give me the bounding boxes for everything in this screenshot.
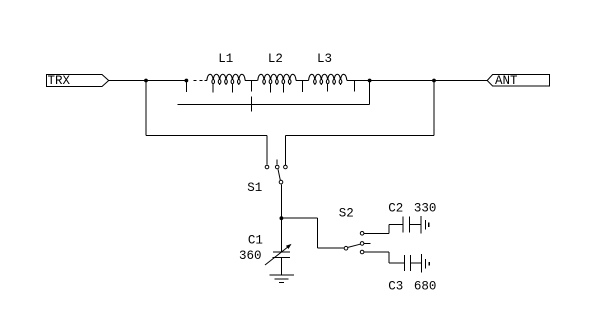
tap stub at L2-L3 junction [302, 81, 304, 93]
wire S1 pole down [280, 184, 282, 218]
wire node B to node C [370, 80, 434, 82]
wire node A down [145, 81, 147, 136]
L1 tap wires [213, 84, 232, 93]
node B junction dot [368, 79, 372, 83]
tap stub at L1-L2 junction [251, 81, 253, 92]
svg-text:C1: C1 [248, 233, 263, 247]
svg-text:680: 680 [414, 280, 437, 294]
wire L1 to L2 [245, 80, 258, 82]
capacitor C3 [404, 254, 429, 273]
svg-text:L3: L3 [317, 52, 332, 66]
node C junction dot [432, 79, 436, 83]
variable capacitor C1 [265, 244, 292, 265]
selected tap tick crossing bus [251, 97, 253, 112]
svg-text:L1: L1 [218, 52, 233, 66]
wire C1 to ground [280, 258, 282, 275]
wire down to S1 right contact [284, 136, 286, 165]
wire node C down [433, 81, 435, 136]
wire node C to ANT [434, 80, 487, 82]
wire to S2 pole [318, 247, 344, 249]
svg-text:TRX: TRX [48, 74, 71, 88]
L3 tap wire [327, 84, 329, 92]
port tag TRX [47, 74, 109, 88]
capacitor C2 [403, 216, 429, 234]
wire S2 feed down [317, 218, 319, 248]
wire node A to tap node [146, 80, 186, 82]
svg-text:330: 330 [414, 202, 437, 216]
wire junction to S2 horizontal [281, 217, 317, 219]
junction dot above C1 [280, 216, 284, 220]
svg-text:C3: C3 [388, 280, 403, 294]
svg-text:C2: C2 [388, 202, 403, 216]
inductor L2 [258, 74, 296, 85]
switch S2 [344, 232, 370, 254]
dashed wire to L1 [194, 80, 207, 82]
tap bus wire [177, 104, 369, 106]
tap stub at L1 input [185, 81, 187, 93]
ground [270, 275, 295, 283]
wire down to S1 left contact [266, 136, 268, 165]
wire left run to S1 [146, 135, 267, 137]
tap node dot before L1 [185, 79, 189, 83]
wire right run to S1 [285, 135, 434, 137]
wire junction down to C1 [280, 218, 282, 252]
tap stub after L3 [354, 81, 356, 92]
port tag ANT [487, 74, 549, 88]
tap bus riser to node B [369, 81, 371, 105]
wire S2 top throw to C2 [364, 225, 403, 234]
svg-text:L2: L2 [268, 52, 283, 66]
inductor L1 [207, 74, 245, 85]
inductor L3 [309, 74, 347, 85]
switch S1 [265, 159, 287, 184]
svg-text:S2: S2 [339, 207, 354, 221]
L2 tap wires [271, 84, 284, 93]
svg-text:ANT: ANT [495, 74, 518, 88]
svg-text:S1: S1 [247, 181, 262, 195]
node A junction dot [144, 79, 148, 83]
svg-text:360: 360 [239, 249, 262, 263]
wire TRX to node A [109, 80, 146, 82]
wire L2 to L3 [296, 80, 308, 82]
wire S2 bottom throw to C3 [364, 252, 404, 263]
wire L3 to node B [347, 80, 370, 82]
